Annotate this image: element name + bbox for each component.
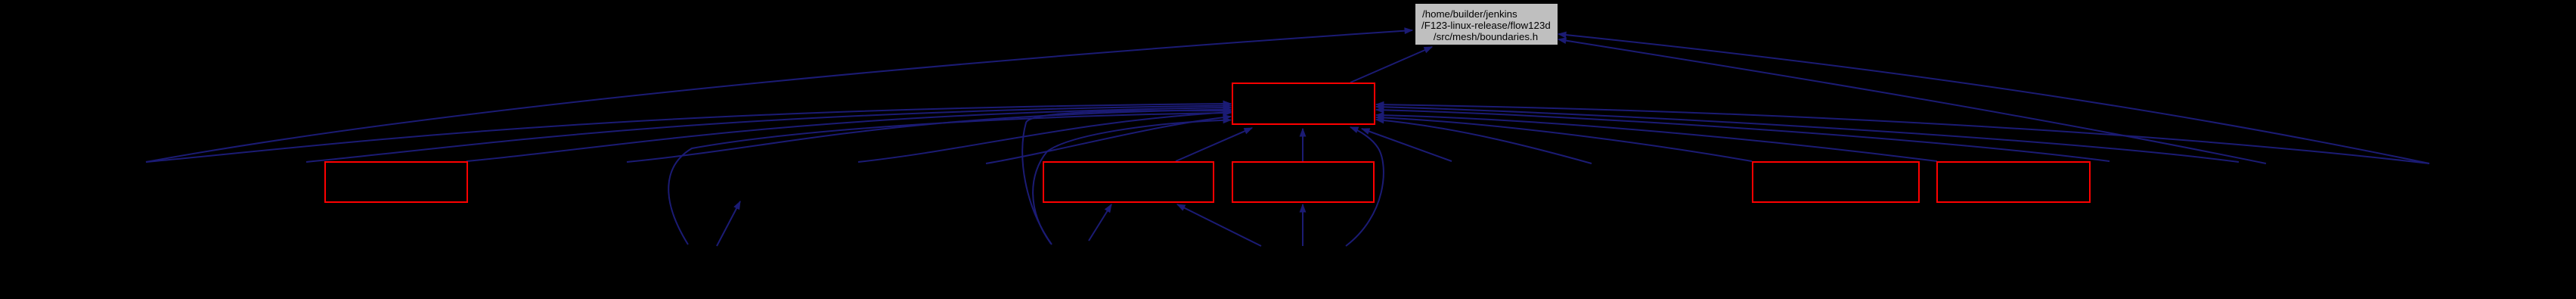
edge L-a far-left node to central box left edge bbox=[146, 104, 1231, 162]
root box label text line 2 bbox=[1421, 20, 1551, 31]
node red box B2 bbox=[1043, 162, 1214, 202]
edge R-g node to central box right edge bbox=[1376, 107, 2239, 162]
edge M-f lower node to box B2 bottom bbox=[1177, 204, 1261, 246]
edge L-g node6 to central box left edge bbox=[986, 117, 1231, 164]
edge M-c central box top to root box bottom bbox=[1350, 47, 1432, 83]
node red box B3 bbox=[1232, 162, 1374, 202]
edge L-c node2 to central box left edge bbox=[306, 106, 1231, 163]
edge M-d lower node to hidden node bottom bbox=[717, 201, 740, 246]
edge L-b far-left node to root box left edge bbox=[146, 30, 1412, 162]
edge M-b box B3 top to central box bottom bbox=[1302, 129, 1303, 161]
node central red box R1 bbox=[1232, 83, 1375, 124]
edge L-f node5 to central box left edge bbox=[858, 112, 1231, 162]
edge L-h curve from lower node around hidden node to central box bbox=[668, 113, 1231, 244]
edge L-d red box B1 to central box left edge bbox=[467, 107, 1231, 161]
edge R-j far right node to root box right edge bbox=[1558, 34, 2429, 164]
node red box B5 bbox=[1753, 162, 1919, 202]
edge R-c node to central box right edge bbox=[1376, 120, 1592, 164]
edge R-a right node to central box bottom-right bbox=[1362, 129, 1452, 161]
edge R-b curve right of box B3 up to central box bottom-right bbox=[1346, 127, 1384, 246]
edge R-i node to root box right edge bbox=[1558, 39, 2266, 164]
edge R-d red box B5 to central box right edge bbox=[1376, 117, 1752, 161]
edge M-a box B2 top to central box bottom bbox=[1176, 128, 1252, 161]
edge M-e lower node to box B2 bottom bbox=[1089, 204, 1111, 241]
edge M-g lower node to box B3 bottom bbox=[1302, 204, 1303, 246]
edge L-e node4 to central box left edge bbox=[627, 110, 1231, 163]
node root gray box bbox=[1415, 4, 1558, 45]
edge R-e red box B6 to central box right edge bbox=[1376, 115, 1937, 161]
root box label text line 1 bbox=[1422, 8, 1517, 20]
node red box B6 bbox=[1937, 162, 2090, 202]
edge L-j curve B around left of box B2 to central box lower-left bbox=[1033, 120, 1231, 244]
node red box B1 bbox=[325, 162, 467, 202]
edge R-f node to central box right edge bbox=[1376, 110, 2109, 161]
edge R-h far right node to central box right edge bbox=[1376, 104, 2429, 164]
root box label text line 3 bbox=[1415, 31, 1556, 42]
edge L-i curve A around left of box B2 to central box bbox=[1022, 111, 1231, 244]
